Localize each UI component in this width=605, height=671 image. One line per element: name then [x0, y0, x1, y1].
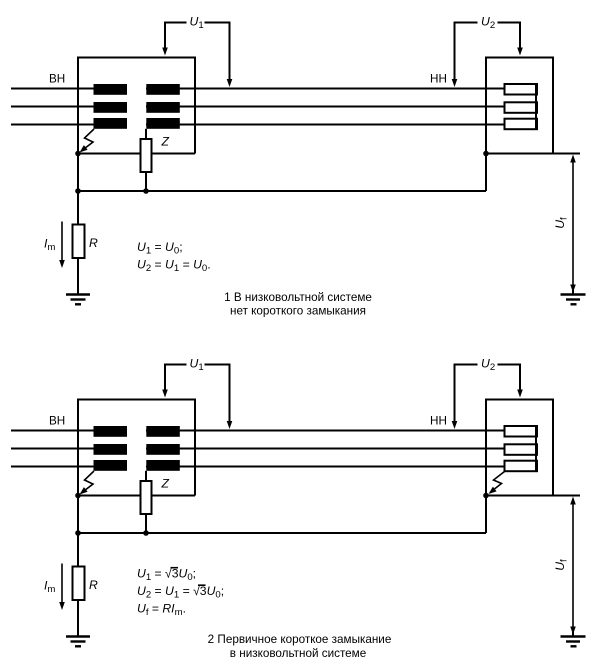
wire U1 left arrow to transformer box top — [164, 22, 166, 49]
wire R to ground — [77, 258, 79, 294]
wire phase line B — [11, 448, 505, 450]
current arrow Im — [61, 222, 63, 261]
measurement arrow Uf (double headed) — [572, 504, 574, 628]
resistor R — [73, 567, 85, 601]
svg-text:Z: Z — [161, 477, 170, 491]
wire U2 right arrow to load box top — [519, 364, 521, 391]
wire neutral bus — [78, 532, 486, 534]
load winding bar 3 — [505, 461, 538, 472]
load box (HH side) — [486, 58, 553, 154]
wire R to ground — [77, 600, 79, 636]
wire Z to neutral bus — [145, 172, 147, 191]
wire secondary winding to Z — [145, 129, 147, 139]
node junction Z-neutral — [143, 530, 149, 536]
short-circuit zigzag arrow to neutral node — [85, 471, 95, 490]
load winding bar 1 — [505, 84, 538, 95]
svg-text:ВН: ВН — [49, 73, 65, 86]
wire U2 right arrow to load box top — [519, 22, 521, 49]
resistor R — [73, 225, 85, 259]
wire secondary winding to Z — [145, 471, 147, 481]
wire load box bottom tap — [553, 495, 580, 497]
wire load bars right connector — [535, 85, 537, 129]
transformer T1 enclosure box — [78, 58, 195, 154]
wire load box corner to neutral bus — [485, 496, 487, 534]
load winding bar 1 — [505, 426, 538, 437]
wire phase line A — [11, 88, 505, 90]
transformer secondary winding (3 bars) — [146, 426, 180, 437]
transformer secondary winding (3 bars) — [146, 84, 180, 95]
node junction neutral bus left — [75, 530, 81, 536]
node neutral (transformer star point) — [75, 493, 81, 499]
transformer T1 enclosure box — [78, 400, 195, 496]
wire U1 bracket horizontal — [165, 22, 230, 24]
wire U1 bracket horizontal — [165, 364, 230, 366]
svg-text:ВН: ВН — [49, 415, 65, 428]
wire neutral vertical down — [77, 154, 79, 225]
wire load box bottom tap — [553, 153, 580, 155]
wire neutral bus — [78, 190, 486, 192]
svg-text:НН: НН — [430, 415, 447, 428]
short-circuit zigzag arrow to neutral node — [85, 129, 95, 148]
ground (right, below Uf) — [572, 290, 574, 294]
wire load bars right connector — [535, 427, 537, 471]
ground (left, below R) — [66, 293, 90, 295]
impedance Z — [141, 139, 152, 172]
transformer primary winding (3 bars) — [94, 84, 128, 95]
svg-text:Z: Z — [161, 135, 170, 149]
current arrow Im — [61, 564, 63, 603]
ground (right, below Uf) — [572, 632, 574, 636]
diagram 2: primary short circuit in LV system — [11, 357, 586, 661]
svg-text:R: R — [89, 578, 98, 592]
short-circuit zigzag arrow in load box (secondary fault) — [494, 472, 505, 489]
wire phase line C — [11, 466, 505, 468]
load winding bar 3 — [505, 119, 538, 130]
svg-text:1 В низковольтной системе: 1 В низковольтной системе — [224, 291, 372, 304]
wire U1 left arrow to transformer box top — [164, 364, 166, 391]
wire phase line C — [11, 124, 505, 126]
wire U2 bracket horizontal — [455, 364, 521, 366]
wire load box corner to neutral bus — [485, 154, 487, 192]
wire U2 bracket horizontal — [455, 22, 521, 24]
wire U1 right arrow to phase line A — [229, 22, 231, 81]
wire U1 right arrow to phase line A — [229, 364, 231, 423]
diagram 1: no short circuit in LV system — [11, 15, 586, 318]
svg-text:R: R — [89, 236, 98, 250]
wire U2 left arrow to phase line A — [454, 364, 456, 423]
node load box bottom-left corner — [483, 493, 489, 499]
load box (HH side) — [486, 400, 553, 496]
load winding bar 2 — [505, 444, 538, 455]
impedance Z — [141, 481, 152, 514]
wire phase line A — [11, 430, 505, 432]
node load box bottom-left corner — [483, 151, 489, 157]
node junction neutral bus left — [75, 188, 81, 194]
load winding bar 2 — [505, 102, 538, 113]
wire U2 left arrow to phase line A — [454, 22, 456, 81]
wire Z to neutral bus — [145, 514, 147, 533]
wire phase line B — [11, 106, 505, 108]
node junction Z-neutral — [143, 188, 149, 194]
transformer primary winding (3 bars) — [94, 426, 128, 437]
wire neutral vertical down — [77, 496, 79, 567]
node neutral (transformer star point) — [75, 151, 81, 157]
svg-text:нет короткого замыкания: нет короткого замыкания — [230, 305, 366, 318]
svg-text:2 Первичное короткое замыкание: 2 Первичное короткое замыкание — [208, 633, 392, 646]
svg-text:НН: НН — [430, 73, 447, 86]
ground (left, below R) — [66, 635, 90, 637]
measurement arrow Uf (double headed) — [572, 162, 574, 286]
svg-text:в низковольтной системе: в низковольтной системе — [230, 647, 366, 660]
